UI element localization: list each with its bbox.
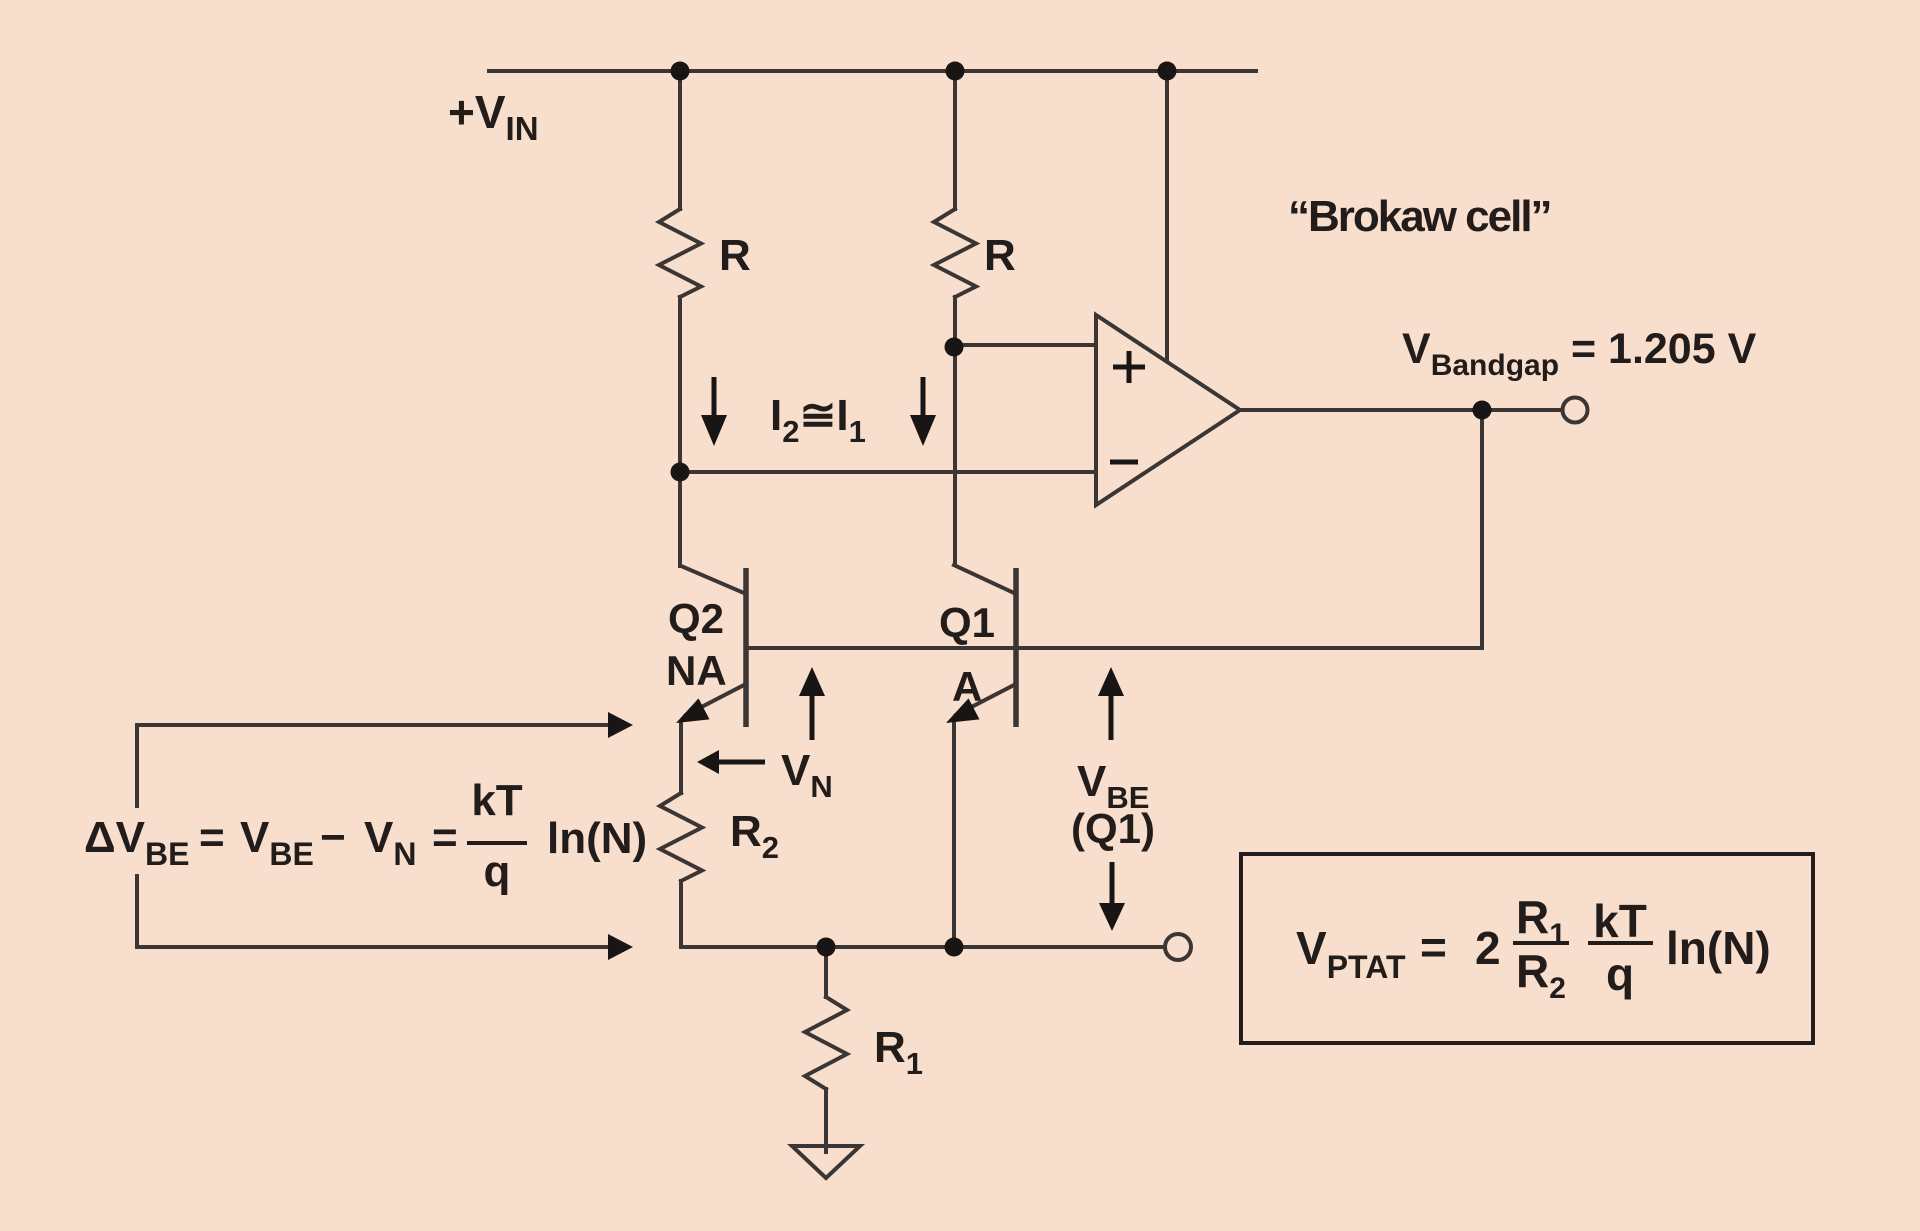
svg-text:=: = <box>432 813 458 862</box>
svg-text:Q1: Q1 <box>939 599 995 646</box>
svg-text:ln(N): ln(N) <box>547 814 647 863</box>
svg-text:q: q <box>484 847 511 896</box>
svg-text:A: A <box>952 663 982 710</box>
svg-text:=: = <box>199 813 225 862</box>
svg-text:2: 2 <box>1475 922 1501 974</box>
svg-text:−: − <box>320 813 346 862</box>
svg-text:kT: kT <box>1593 895 1647 947</box>
svg-text:kT: kT <box>471 776 522 825</box>
svg-text:=: = <box>1420 921 1447 973</box>
svg-text:ln(N): ln(N) <box>1666 922 1771 974</box>
svg-text:Q2: Q2 <box>668 595 724 642</box>
svg-text:R: R <box>719 231 751 280</box>
svg-text:“Brokaw cell”: “Brokaw cell” <box>1288 192 1551 241</box>
svg-text:R: R <box>984 231 1016 280</box>
svg-text:q: q <box>1606 948 1634 1000</box>
svg-text:NA: NA <box>666 647 727 694</box>
svg-text:(Q1): (Q1) <box>1071 805 1155 852</box>
